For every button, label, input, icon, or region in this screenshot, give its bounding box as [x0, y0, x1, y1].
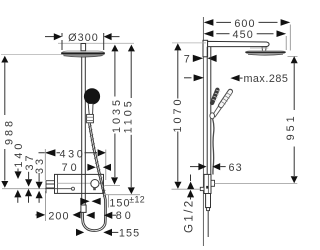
pipe bottom cap: [81, 205, 86, 212]
G1/2 inlet line + end dot: [2, 188, 45, 190]
select button on shelf: [91, 180, 99, 188]
inlet centerline: [172, 188, 201, 190]
dimension Ø300: [45, 32, 120, 50]
arm top reference faint: [172, 42, 206, 44]
hose (left view): diagonal + U loop, double line: [82, 123, 107, 231]
shelf inner vertical line: [57, 174, 59, 193]
valve body (right view): [200, 174, 214, 193]
wall bracket stub: [46, 181, 55, 194]
svg-text:600: 600: [234, 18, 255, 30]
svg-text:1070: 1070: [172, 96, 184, 132]
dimension 7 (wall plate): [184, 53, 217, 65]
dimension 80: [86, 210, 134, 222]
dimension 63: [190, 162, 243, 174]
svg-text:63: 63: [228, 162, 242, 174]
svg-text:450: 450: [233, 29, 254, 41]
dimension 951: [285, 56, 298, 183]
wall line: [202, 17, 204, 246]
hand shower holder block: [87, 114, 94, 122]
svg-text:1105: 1105: [123, 98, 135, 133]
head stick (light, outlined): [221, 91, 231, 105]
holder knob: [210, 113, 215, 119]
pipe below valve: [206, 194, 211, 238]
centerline from valve to 951: [215, 183, 298, 185]
svg-text:430: 430: [59, 149, 85, 161]
reference line head level for 988: [1, 53, 62, 55]
svg-text:G1/2: G1/2: [184, 198, 196, 233]
hand shower handle: [88, 104, 93, 115]
svg-text:33: 33: [34, 156, 46, 174]
inlet stub: [200, 187, 204, 190]
shelf centerline: [58, 182, 103, 184]
svg-text:Ø300: Ø300: [68, 32, 99, 44]
svg-text:80: 80: [116, 210, 134, 222]
pipe (right view): [207, 47, 211, 175]
hand shower (right view, tilted): [210, 90, 231, 119]
svg-text:155: 155: [119, 227, 140, 239]
dimension 155: [76, 227, 140, 239]
dimension 33: [34, 156, 46, 203]
svg-text:1035: 1035: [111, 97, 123, 133]
wall plate: [203, 40, 208, 57]
dimension 140: [13, 141, 25, 203]
handle stick (dark, hatched): [212, 90, 217, 103]
reference line head-top level (1035/1105 datum): [58, 42, 134, 44]
dimension 37: [24, 152, 36, 202]
cone connector: [213, 106, 221, 117]
dimension 988 (left outer): [1, 56, 15, 188]
vertical pipe (left view): [82, 57, 86, 205]
hose (right view) wavy down: [213, 119, 214, 175]
dimension 600: [204, 18, 291, 51]
dimension 70: [62, 162, 111, 174]
shower head (right view, flat lens): [245, 51, 285, 55]
dimension 200: [36, 191, 81, 223]
shower arm: [208, 41, 269, 46]
dimension 450: [204, 29, 287, 50]
svg-text:±12: ±12: [129, 194, 145, 204]
dimension 1035: [105, 45, 123, 186]
dimension 430: [39, 149, 106, 181]
G1/2 callout: [184, 175, 196, 233]
shower head (left view, lens shape): [61, 51, 105, 57]
hose hatching on diagonal: [88, 125, 106, 197]
svg-text:150: 150: [109, 198, 130, 210]
head neck: [262, 47, 266, 51]
dimension 1105: [105, 45, 140, 195]
svg-text:max.285: max.285: [243, 73, 288, 85]
svg-text:70: 70: [62, 162, 80, 174]
svg-text:951: 951: [285, 113, 297, 140]
hand shower head (dark circle): [84, 88, 100, 104]
dimension 1070: [172, 43, 184, 189]
glass shelf / thermostat body: [55, 174, 104, 193]
svg-text:7: 7: [184, 53, 191, 65]
dimension 150 +-12: [80, 194, 145, 209]
head connector block: [81, 44, 86, 51]
svg-text:200: 200: [48, 211, 69, 223]
dimension max.285: [184, 73, 288, 85]
